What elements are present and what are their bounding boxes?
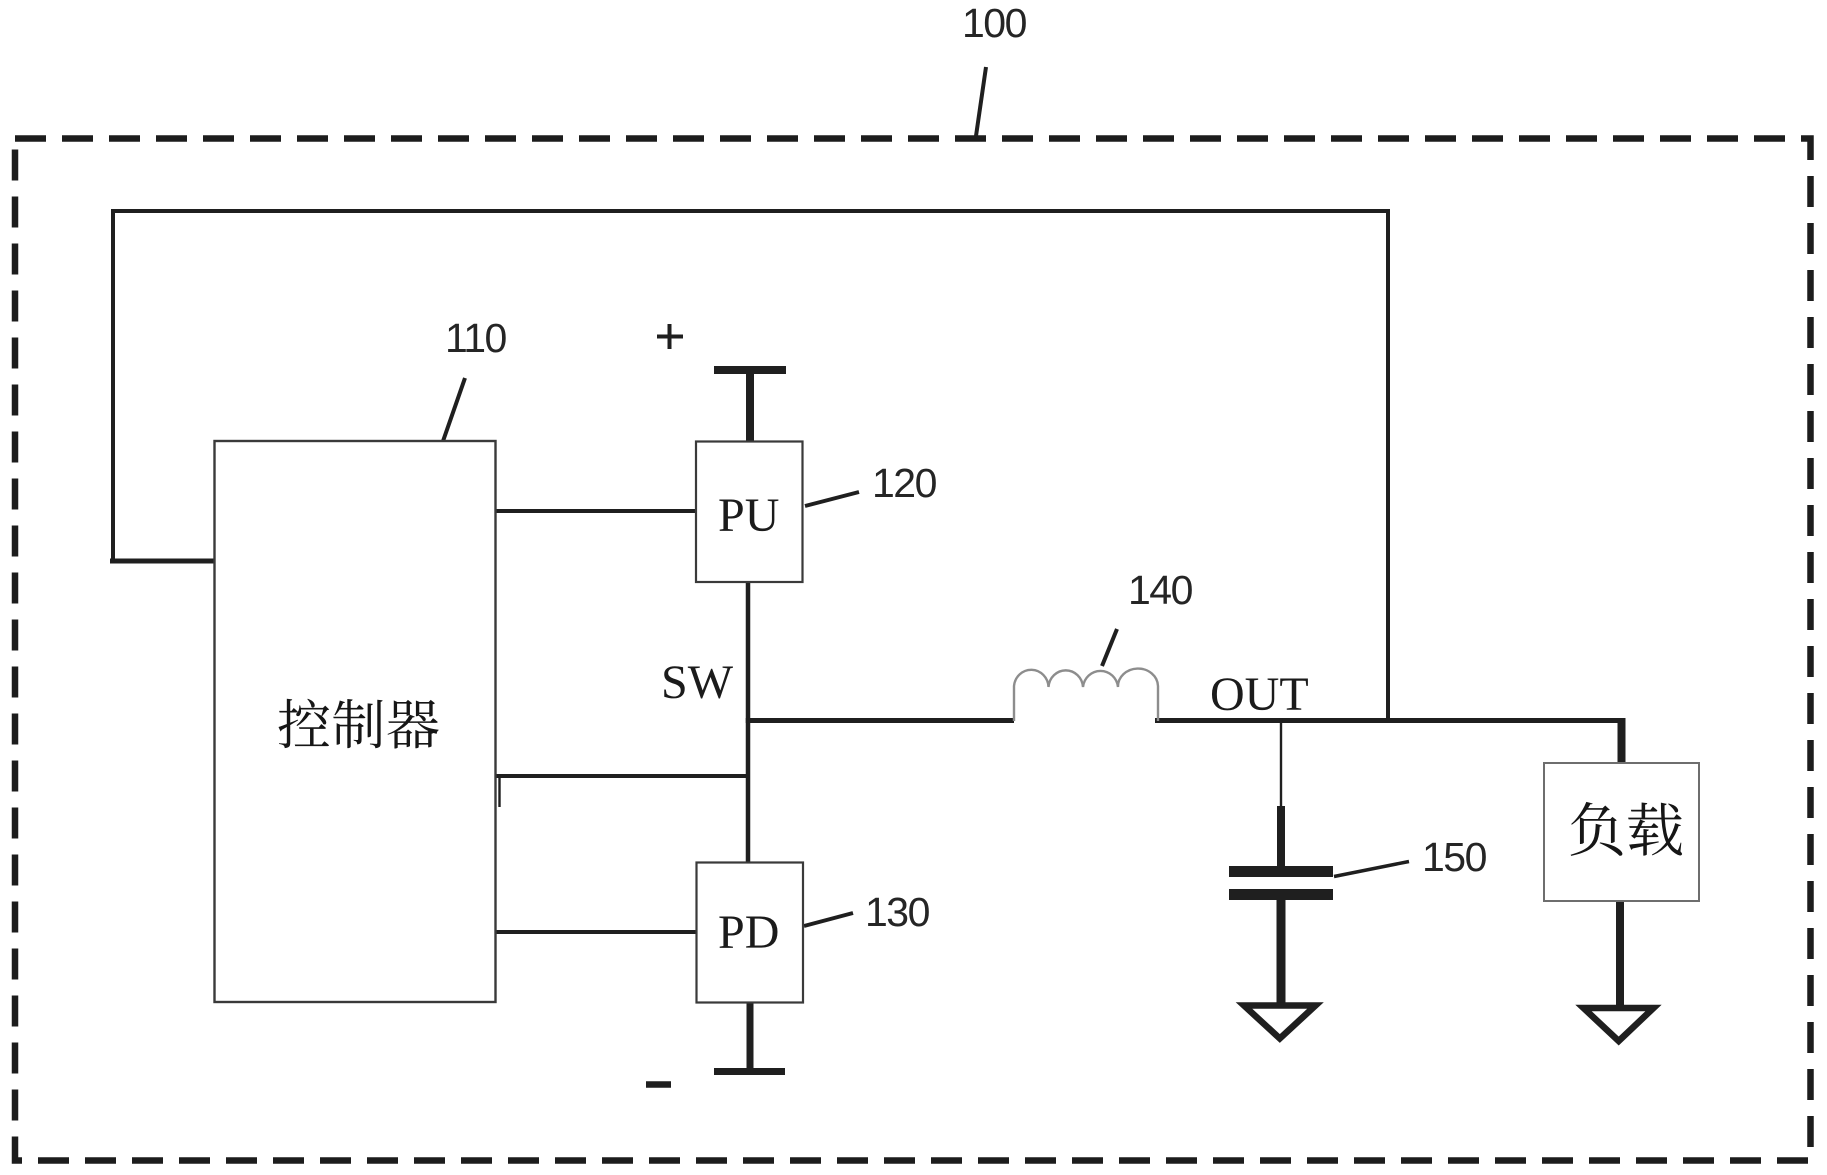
svg-text:SW: SW [661,656,734,709]
svg-text:PD: PD [718,906,779,959]
svg-text:110: 110 [445,315,507,361]
svg-text:PU: PU [718,489,779,542]
svg-text:150: 150 [1422,834,1487,880]
svg-text:120: 120 [872,460,937,506]
svg-text:OUT: OUT [1210,668,1309,721]
svg-text:100: 100 [962,0,1027,46]
svg-text:140: 140 [1128,567,1193,613]
svg-text:130: 130 [865,889,930,935]
